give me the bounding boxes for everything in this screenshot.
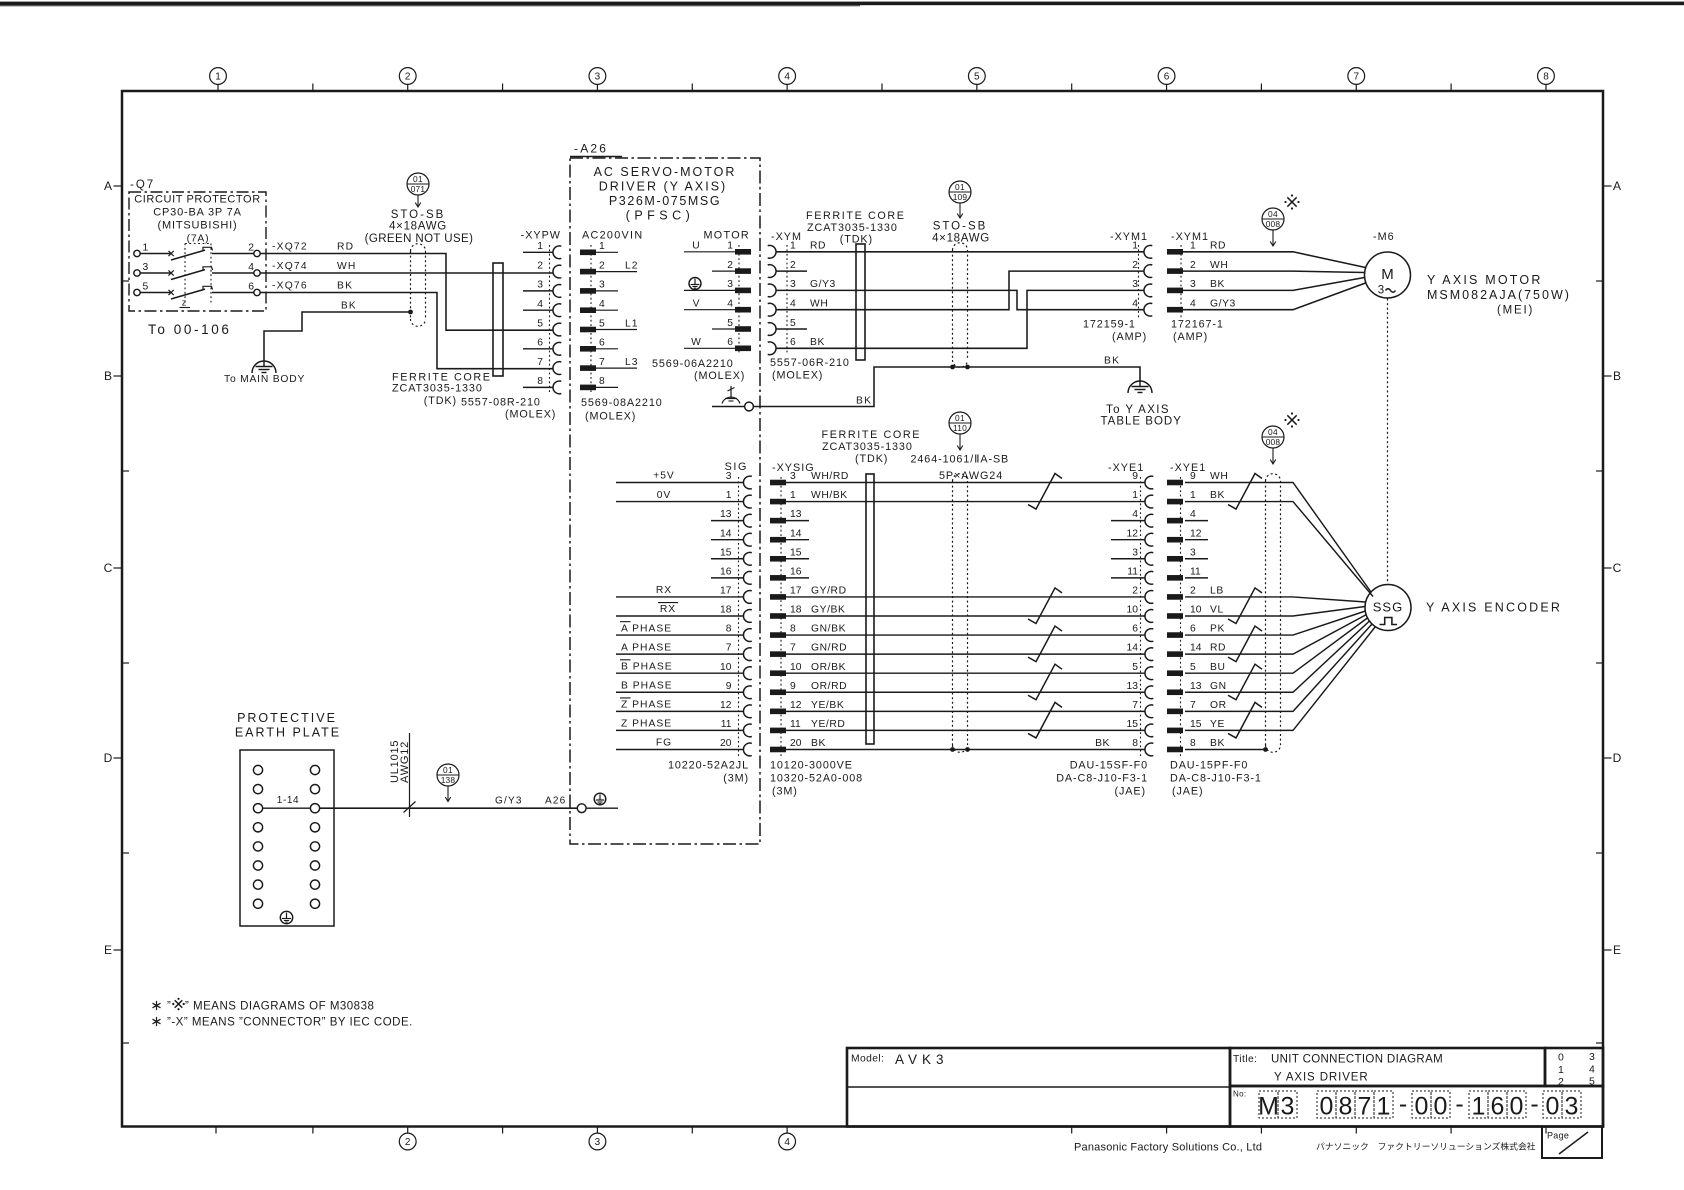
svg-text:1: 1 <box>1132 241 1138 252</box>
svg-text:1: 1 <box>790 490 796 501</box>
title block title box <box>1230 1048 1545 1086</box>
svg-text:3: 3 <box>1565 1093 1579 1121</box>
wire stub after terminal <box>586 807 618 809</box>
grid tick right <box>1596 1042 1603 1044</box>
svg-text:2: 2 <box>248 243 254 254</box>
svg-text:4: 4 <box>784 72 790 83</box>
arrow to motor wires <box>1272 230 1274 246</box>
svg-text:8: 8 <box>1543 72 1549 83</box>
connector -XYE1 male body line <box>1180 477 1182 757</box>
connector -XYE1 male pin 5 <box>1167 670 1183 676</box>
scan artifact top edge <box>0 2 1684 6</box>
connector AC200VIN pin 2 <box>580 269 596 275</box>
svg-text:2: 2 <box>1190 260 1196 271</box>
wire encoder RD to SSG <box>1185 615 1367 655</box>
connector -XYM1 female pin 2 <box>1144 265 1152 278</box>
grid tick top <box>1071 84 1073 92</box>
grid ref 4 bottom <box>786 1127 788 1134</box>
svg-text:172167-1: 172167-1 <box>1171 319 1224 331</box>
svg-text:7: 7 <box>726 643 732 654</box>
svg-text:9: 9 <box>726 681 732 692</box>
svg-text:3: 3 <box>537 280 543 291</box>
wire BK to Y axis table body <box>753 367 1140 407</box>
title block revision box <box>1545 1048 1603 1086</box>
driver unit A26 box <box>570 158 760 844</box>
connector MOTOR pin 3 <box>735 288 751 294</box>
svg-text:5: 5 <box>790 318 796 329</box>
svg-text:8: 8 <box>726 624 732 635</box>
svg-text:(7A): (7A) <box>187 234 210 245</box>
connector -XYE1 female pin 2 <box>1145 591 1153 604</box>
connector -XYE1 male pin 4 <box>1167 518 1183 524</box>
note connector IEC code <box>156 1017 158 1026</box>
svg-text:11: 11 <box>790 719 801 730</box>
svg-text:B PHASE: B PHASE <box>621 680 673 691</box>
svg-text:8: 8 <box>599 376 605 387</box>
connector MOTOR pin 4 <box>735 307 751 313</box>
svg-text:ZCAT3035-1330: ZCAT3035-1330 <box>392 383 483 395</box>
earth symbol To Y AXIS TABLE BODY <box>1132 386 1149 388</box>
wire encoder BK <box>786 748 1145 750</box>
connector -XYSIG pin 14 <box>770 537 786 543</box>
twisted pair mark 10/9 <box>1028 664 1062 700</box>
wire BK phase T <box>260 293 553 369</box>
svg-text:6: 6 <box>537 338 543 349</box>
svg-text:3: 3 <box>790 471 796 482</box>
connector -XYSIG body line <box>780 477 782 757</box>
svg-text:7: 7 <box>1132 700 1138 711</box>
svg-text:7: 7 <box>1190 700 1196 711</box>
svg-text:1: 1 <box>1190 241 1196 252</box>
wire BK motor W <box>776 290 1144 348</box>
svg-text:C: C <box>104 561 113 575</box>
svg-text:1: 1 <box>1377 1093 1391 1121</box>
connector -XYE1 female pin 11 <box>1145 571 1153 584</box>
twisted pair mark 3/1 <box>1028 474 1062 510</box>
svg-text:1: 1 <box>726 490 732 501</box>
svg-text:Z PHASE: Z PHASE <box>621 719 672 730</box>
svg-text:5: 5 <box>1190 662 1196 673</box>
connector -XYE1 male pin 15 <box>1167 728 1183 734</box>
connector -XYE1 female pin 15 <box>1145 724 1153 737</box>
svg-text:5: 5 <box>974 72 980 83</box>
svg-text:8: 8 <box>1190 738 1196 749</box>
revision balloon 01/071 <box>407 173 429 195</box>
revision balloon 04/008 encoder <box>1262 426 1284 448</box>
svg-text:17: 17 <box>790 586 802 597</box>
connector MOTOR pin 6 <box>735 346 751 352</box>
arrow to STO-SB motor cable <box>959 203 961 218</box>
wire encoder LB to SSG <box>1185 597 1366 602</box>
encoder SSG circle <box>1365 585 1411 631</box>
svg-text:GN/RD: GN/RD <box>811 643 847 654</box>
svg-text:GY/BK: GY/BK <box>811 605 845 616</box>
grid ref 8 top <box>1538 68 1555 85</box>
connector -XYE1 male pin 2 <box>1167 594 1183 600</box>
svg-text:OR/RD: OR/RD <box>811 681 847 692</box>
svg-text:3: 3 <box>1190 547 1196 558</box>
svg-text:1: 1 <box>790 241 796 252</box>
svg-text:WH: WH <box>337 261 357 272</box>
connector -XYSIG pin 17 <box>770 594 786 600</box>
svg-text:3: 3 <box>599 280 605 291</box>
svg-text:AWG12: AWG12 <box>399 741 411 783</box>
svg-text:UNIT CONNECTION DIAGRAM: UNIT CONNECTION DIAGRAM <box>1271 1054 1443 1066</box>
terminal circle A26 earth <box>577 804 586 813</box>
signal cable sheath oval <box>952 481 954 745</box>
wire encoder OR to SSG <box>1185 624 1373 712</box>
svg-text:(JAE): (JAE) <box>1172 786 1204 798</box>
svg-text:CIRCUIT PROTECTOR: CIRCUIT PROTECTOR <box>134 194 261 206</box>
svg-text:BK: BK <box>1210 279 1225 290</box>
svg-text:FG: FG <box>656 738 672 749</box>
svg-text:10220-52A2JL: 10220-52A2JL <box>668 760 749 772</box>
svg-text:18: 18 <box>790 605 802 616</box>
connector -XYE1 male pin 3 <box>1167 556 1183 562</box>
svg-text:YE: YE <box>1210 719 1225 730</box>
connector -XYM pin 3 <box>768 284 776 297</box>
svg-text:BK: BK <box>1095 738 1110 749</box>
svg-text:Y AXIS ENCODER: Y AXIS ENCODER <box>1426 601 1562 615</box>
svg-text:FERRITE CORE: FERRITE CORE <box>806 210 906 222</box>
svg-text:6: 6 <box>790 337 796 348</box>
STO-SB motor cable sheath oval <box>952 250 954 360</box>
svg-text:0: 0 <box>1434 1093 1448 1121</box>
connector -XYSIG pin 16 <box>770 575 786 581</box>
svg-text:(TDK): (TDK) <box>855 453 888 465</box>
grid ref 5 top <box>968 68 985 85</box>
svg-text:WH: WH <box>810 299 828 310</box>
svg-text:G/Y3: G/Y3 <box>810 279 836 290</box>
svg-text:2464-1061/ⅡA-SB: 2464-1061/ⅡA-SB <box>911 454 1010 466</box>
svg-text:7: 7 <box>1358 1093 1372 1121</box>
svg-text:11: 11 <box>721 719 732 730</box>
svg-text:01: 01 <box>413 174 423 184</box>
earth plate hole row 1 <box>253 765 262 774</box>
earth plate hole row 7 <box>253 880 262 889</box>
svg-text:Model:: Model: <box>851 1054 884 1065</box>
connector -XYM1 female pin 4 <box>1144 303 1152 316</box>
wire encoder OR/BK <box>786 672 1145 674</box>
junction dots shield on sheath <box>950 747 955 752</box>
svg-text:-XYE1: -XYE1 <box>1108 462 1144 474</box>
wire G/Y3 motor earth <box>776 290 1144 309</box>
svg-text:01: 01 <box>443 765 453 775</box>
twisted pair mark 6/14 <box>1228 626 1262 662</box>
connector -XYM pin 1 <box>768 245 776 258</box>
svg-text:G/Y3: G/Y3 <box>495 796 523 807</box>
earth symbol A26 earth terminal <box>594 793 606 805</box>
connector -XYE1 female pin 3 <box>1145 552 1153 565</box>
svg-text:BK: BK <box>1210 490 1225 501</box>
grid tick bottom <box>502 1127 504 1134</box>
svg-text:4: 4 <box>1132 509 1138 520</box>
svg-text:4: 4 <box>1132 299 1138 310</box>
svg-text:6: 6 <box>1190 624 1196 635</box>
wire encoder YE to SSG <box>1185 627 1376 731</box>
svg-text:20: 20 <box>790 738 802 749</box>
svg-text:3: 3 <box>727 279 733 290</box>
earth plate hole row 3 <box>253 804 262 813</box>
grid tick right <box>1596 852 1603 854</box>
wire BK to motor <box>1183 278 1365 291</box>
svg-text:8: 8 <box>1132 738 1138 749</box>
grid tick bottom <box>1355 1127 1357 1134</box>
svg-text:DRIVER (Y AXIS): DRIVER (Y AXIS) <box>599 180 727 194</box>
svg-text:3: 3 <box>1281 1093 1295 1121</box>
svg-text:9: 9 <box>790 681 796 692</box>
svg-text:GN/BK: GN/BK <box>811 624 846 635</box>
svg-text:8: 8 <box>1339 1093 1353 1121</box>
svg-text:6: 6 <box>248 282 254 293</box>
svg-text:20: 20 <box>720 738 732 749</box>
svg-text:” MEANS DIAGRAMS OF M30838: ” MEANS DIAGRAMS OF M30838 <box>185 1001 374 1013</box>
wire WH to motor <box>1183 271 1365 272</box>
svg-text:2: 2 <box>1132 260 1138 271</box>
earth plate hole row 4 <box>253 823 262 832</box>
svg-text:17: 17 <box>720 586 732 597</box>
earth plate hole row 2 <box>253 785 262 794</box>
grid tick bottom <box>1166 1127 1168 1134</box>
wire RD phase R <box>260 254 553 331</box>
svg-text:10: 10 <box>1190 605 1202 616</box>
connector -XYM1 male body line <box>1180 245 1182 318</box>
grid tick left <box>122 662 129 664</box>
svg-text:BU: BU <box>1210 662 1226 673</box>
connector -XYM pin 5 <box>768 323 776 336</box>
svg-text:1: 1 <box>1132 490 1138 501</box>
connector MOTOR pin 5 <box>735 326 751 332</box>
svg-text:13: 13 <box>1190 681 1202 692</box>
svg-text:04: 04 <box>1268 209 1278 219</box>
STO-SB cable sheath oval <box>410 251 412 319</box>
encoder cable sheath oval <box>1265 481 1267 745</box>
grid tick left <box>122 852 129 854</box>
svg-text:10: 10 <box>790 662 802 673</box>
svg-text:3: 3 <box>143 262 149 273</box>
svg-text:Title:: Title: <box>1233 1054 1257 1065</box>
svg-text:8: 8 <box>537 376 543 387</box>
svg-text:-XYM: -XYM <box>771 231 802 243</box>
connector -XYE1 female pin 13 <box>1145 686 1153 699</box>
svg-text:0: 0 <box>1510 1093 1524 1121</box>
svg-text:E: E <box>104 943 112 957</box>
grid tick bottom <box>1450 1127 1452 1134</box>
connector -XYE1 female pin 9 <box>1145 476 1153 489</box>
svg-text:01: 01 <box>955 413 965 423</box>
ferrite core signal cable <box>866 474 874 744</box>
svg-text:2: 2 <box>727 260 733 271</box>
svg-text:6: 6 <box>599 338 605 349</box>
svg-text:16: 16 <box>720 566 732 577</box>
grid ref 2 top <box>399 68 416 85</box>
svg-text:B: B <box>104 369 112 383</box>
svg-text:Y AXIS MOTOR: Y AXIS MOTOR <box>1427 273 1543 287</box>
connector -XYE1 male pin 10 <box>1167 613 1183 619</box>
grid ref 4 top <box>779 68 796 85</box>
svg-text:WH: WH <box>1210 471 1228 482</box>
svg-text:5: 5 <box>1132 662 1138 673</box>
svg-text:11: 11 <box>1190 566 1201 577</box>
connector -XYSIG pin 12 <box>770 709 786 715</box>
wire encoder VL to SSG <box>1185 607 1365 616</box>
svg-text:2: 2 <box>1190 586 1196 597</box>
svg-text:RX: RX <box>660 604 676 615</box>
grid tick bottom <box>1260 1127 1262 1134</box>
connector -XYE1 male pin 14 <box>1167 651 1183 657</box>
svg-text:0: 0 <box>1415 1093 1429 1121</box>
grid tick top <box>312 84 314 92</box>
twisted pair mark 7/15 <box>1228 702 1262 738</box>
revision balloon 01/109 <box>949 181 971 203</box>
driver unit A26 label underline <box>570 156 622 158</box>
connector -XYM1 male pin 1 <box>1167 249 1183 255</box>
connector -XYE1 male pin 13 <box>1167 689 1183 695</box>
svg-text:EARTH PLATE: EARTH PLATE <box>235 726 341 740</box>
svg-text:-: - <box>1530 1090 1538 1118</box>
svg-text:V: V <box>693 299 700 310</box>
svg-text:パナソニック ファクトリーソリューションズ株式会社: パナソニック ファクトリーソリューションズ株式会社 <box>1316 1141 1536 1152</box>
svg-text:138: 138 <box>441 775 456 785</box>
svg-text:ZCAT3035-1330: ZCAT3035-1330 <box>822 441 913 453</box>
connector AC200VIN body line <box>590 245 592 393</box>
wire encoder GY/RD <box>786 596 1145 598</box>
svg-text:A26: A26 <box>545 796 566 807</box>
svg-text:-XQ76: -XQ76 <box>272 281 308 292</box>
svg-text:WH/BK: WH/BK <box>811 490 848 501</box>
svg-text:3: 3 <box>595 72 601 83</box>
svg-text:4: 4 <box>1190 299 1196 310</box>
wire encoder GY/BK <box>786 615 1145 617</box>
ferrite core motor cable <box>856 244 865 360</box>
svg-text:13: 13 <box>1127 681 1139 692</box>
svg-text:-A26: -A26 <box>574 142 608 156</box>
junction dots table-body wire on sheath <box>950 365 955 370</box>
wire encoder BK to SSG <box>1185 502 1373 597</box>
grid tick bottom <box>215 1127 217 1134</box>
svg-text:12: 12 <box>1190 528 1202 539</box>
stub -XYM pin 2 <box>776 270 807 272</box>
svg-text:0V: 0V <box>657 490 672 501</box>
twisted pair mark 8/7 <box>1028 626 1062 662</box>
wire encoder BU to SSG <box>1185 618 1368 674</box>
connector -XYSIG pin 18 <box>770 613 786 619</box>
connector -XYM body line <box>786 245 788 355</box>
svg-text:9: 9 <box>1190 471 1196 482</box>
svg-text:RD: RD <box>337 242 354 253</box>
connector -XYM1 male pin 4 <box>1167 307 1183 313</box>
svg-text:7: 7 <box>599 357 605 368</box>
svg-text:109: 109 <box>953 192 968 202</box>
wire RD to motor <box>1183 252 1366 268</box>
svg-text:PK: PK <box>1210 624 1225 635</box>
svg-text:+5V: +5V <box>653 471 675 482</box>
svg-text:FERRITE CORE: FERRITE CORE <box>822 429 922 441</box>
connector MOTOR pin 1 <box>735 249 751 255</box>
breaker pole contact 1-2 <box>134 250 140 256</box>
svg-text:5569-06A2210: 5569-06A2210 <box>652 358 734 370</box>
twisted pair mark 17/18 <box>1028 588 1062 624</box>
breaker trip linkage box <box>185 243 211 245</box>
connector -XYE1 female pin 7 <box>1145 705 1153 718</box>
grid ref 3 bottom <box>596 1127 598 1134</box>
reference mark motor balloon <box>1287 197 1296 206</box>
connector -XYM pin 2 <box>768 265 776 278</box>
svg-text:(MOLEX): (MOLEX) <box>505 409 556 421</box>
svg-text:6: 6 <box>727 337 733 348</box>
svg-text:13: 13 <box>720 509 732 520</box>
wire WH phase S <box>260 272 553 274</box>
svg-text:Panasonic Factory Solutions Co: Panasonic Factory Solutions Co., Ltd <box>1074 1142 1262 1154</box>
connector -XYM1 male pin 2 <box>1167 268 1183 274</box>
svg-text:A PHASE: A PHASE <box>621 623 672 634</box>
grid tick left <box>122 470 129 472</box>
svg-text:4: 4 <box>784 1137 790 1148</box>
connector AC200VIN pin 7 <box>580 365 596 371</box>
wire encoder GN/BK <box>786 634 1145 636</box>
svg-text:(MOLEX): (MOLEX) <box>772 370 823 382</box>
svg-text:(MEI): (MEI) <box>1497 305 1534 317</box>
svg-text:5P×AWG24: 5P×AWG24 <box>939 470 1003 482</box>
svg-text:15: 15 <box>1127 719 1139 730</box>
grid tick top <box>881 84 883 92</box>
svg-text:10: 10 <box>1127 605 1139 616</box>
twisted pair mark 2/10 <box>1228 588 1262 624</box>
svg-text:GY/RD: GY/RD <box>811 586 847 597</box>
svg-text:RD: RD <box>1210 241 1226 252</box>
wire encoder WH to SSG <box>1185 483 1371 593</box>
svg-text:To MAIN BODY: To MAIN BODY <box>224 374 305 385</box>
grid tick bottom <box>1545 1127 1547 1134</box>
svg-text:4: 4 <box>727 299 733 310</box>
connector -XYSIG pin 11 <box>770 728 786 734</box>
twisted pair mark 5/13 <box>1228 664 1262 700</box>
reference mark encoder balloon <box>1287 415 1296 424</box>
svg-text:1: 1 <box>1472 1093 1486 1121</box>
svg-text:”: ” <box>167 1001 171 1013</box>
svg-text:2: 2 <box>599 260 605 271</box>
earth symbol To MAIN BODY <box>256 366 273 368</box>
svg-text:3: 3 <box>790 279 796 290</box>
connector -XYE1 female pin 14 <box>1145 648 1153 661</box>
drawing number M3 0871-00-160-03 <box>1259 1091 1278 1118</box>
svg-text:2: 2 <box>1132 586 1138 597</box>
svg-text:PROTECTIVE: PROTECTIVE <box>237 711 337 725</box>
svg-text:4: 4 <box>790 299 796 310</box>
arrow to earth wire <box>447 786 449 802</box>
connector -XYSIG pin 10 <box>770 670 786 676</box>
grid ref 2 bottom <box>407 1127 409 1134</box>
svg-text:4×18AWG: 4×18AWG <box>932 233 990 245</box>
grid tick top <box>691 84 693 92</box>
svg-text:4: 4 <box>537 299 543 310</box>
connector -XYE1 male pin 8 <box>1167 747 1183 753</box>
svg-text:15: 15 <box>1190 719 1202 730</box>
border frame <box>122 91 1603 1127</box>
svg-text:To 00-106: To 00-106 <box>148 322 231 337</box>
wire encoder PK to SSG <box>1185 611 1366 635</box>
connector -XYE1 male pin 9 <box>1167 480 1183 486</box>
svg-text:3: 3 <box>1378 285 1384 297</box>
svg-text:5: 5 <box>599 318 605 329</box>
connector -XYM1 male pin 3 <box>1167 288 1183 294</box>
junction dot on cable sheath <box>408 310 413 315</box>
connector -XYE1 male pin 11 <box>1167 575 1183 581</box>
grid tick bottom <box>1071 1127 1073 1134</box>
svg-text:071: 071 <box>411 184 426 194</box>
connector -XYE1 male pin 12 <box>1167 537 1183 543</box>
grid tick top <box>502 84 504 92</box>
